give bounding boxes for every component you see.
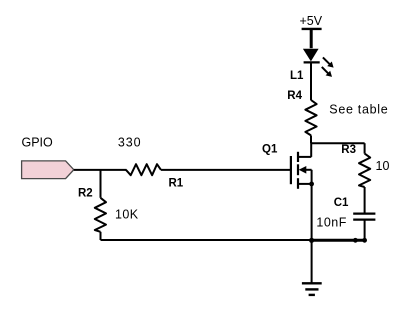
wire: GPIO terminal to R1 (74, 169, 127, 171)
svg-text:R4: R4 (287, 90, 302, 102)
svg-text:+5V: +5V (300, 14, 323, 28)
svg-text:L1: L1 (290, 70, 304, 82)
svg-text:GPIO: GPIO (22, 135, 54, 149)
resistor R2 (10K) (78, 170, 139, 240)
svg-text:10nF: 10nF (316, 215, 347, 229)
resistor R1 (330) (118, 136, 184, 190)
wire: bottom rail (left section) (101, 239, 312, 241)
terminal GPIO (22, 135, 74, 178)
resistor R3 (10) (341, 143, 389, 187)
wire: drain node to R3 top (311, 142, 364, 144)
junction dot: rail left of C1 (353, 238, 358, 243)
LED L1 (290, 49, 334, 82)
power +5V (300, 14, 323, 48)
wire: bottom rail (right thick section) (312, 239, 367, 242)
wire: R1 to Q1 gate (161, 169, 291, 171)
svg-text:10: 10 (376, 159, 390, 173)
wire: R4 to drain node (310, 135, 312, 143)
junction dot: ground node (309, 238, 314, 243)
wire: LED cathode to R4 (310, 62, 312, 100)
svg-text:R3: R3 (341, 144, 356, 156)
resistor R4 (See table) (287, 90, 388, 135)
svg-text:10K: 10K (115, 208, 139, 222)
wire: R3 to C1 (364, 187, 366, 213)
svg-text:330: 330 (118, 136, 142, 150)
svg-text:C1: C1 (334, 197, 349, 209)
wire: C1 to bottom rail (364, 220, 366, 241)
svg-text:R2: R2 (78, 188, 93, 200)
wire: Q1 source down to rail (311, 184, 313, 240)
ground (302, 240, 322, 295)
capacitor C1 (10nF) (316, 197, 375, 229)
svg-text:See table: See table (329, 102, 388, 116)
wire: Q1 drain up to node (310, 142, 312, 157)
junction dot: C1 lead at rail (362, 238, 367, 243)
transistor Q1 (N-channel MOSFET) (262, 144, 314, 189)
svg-text:Q1: Q1 (262, 144, 278, 156)
svg-text:R1: R1 (169, 177, 184, 189)
